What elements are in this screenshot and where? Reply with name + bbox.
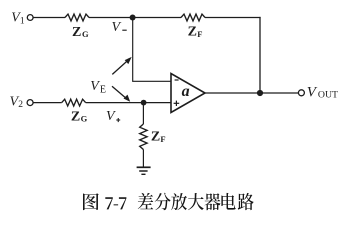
svg-text:V: V [112, 20, 122, 35]
wire feedback vertical [259, 17, 261, 93]
wire ZF2 to ground [142, 150, 144, 168]
node V- junction [112, 15, 136, 36]
svg-text:G: G [81, 114, 88, 124]
resistor ZF (bottom, to ground) [140, 124, 166, 150]
svg-text:1: 1 [20, 16, 25, 26]
wire ZF to feedback corner [205, 17, 261, 19]
svg-text:2: 2 [18, 100, 23, 110]
svg-text:F: F [160, 134, 165, 144]
label VE [90, 79, 106, 95]
node V1 input terminal [11, 10, 33, 27]
node output junction [257, 90, 263, 96]
svg-text:V: V [307, 84, 318, 100]
op-amp U1 [171, 74, 205, 113]
wire op-amp output to VOUT [205, 92, 299, 94]
svg-text:Z: Z [71, 109, 80, 124]
ground [137, 167, 151, 174]
node V+ junction [141, 100, 147, 106]
caption: figure 7-7 differential amplifier circuit [83, 193, 254, 210]
wire V2 terminal to ZG2 [33, 102, 61, 104]
wire ZG1 to node V- [89, 17, 181, 19]
wire V+ node down to ZF2 [142, 103, 144, 124]
svg-text:Z: Z [188, 25, 197, 40]
label V+ [106, 109, 120, 124]
svg-text:V: V [90, 79, 100, 94]
resistor ZF (top feedback) [181, 14, 205, 40]
node V2 input terminal [10, 94, 34, 110]
svg-text:OUT: OUT [318, 89, 338, 100]
svg-text:a: a [182, 83, 190, 100]
arrow VE to inverting wire [112, 57, 131, 75]
resistor ZG (bottom) [62, 99, 88, 124]
svg-text:G: G [82, 29, 89, 39]
svg-text:F: F [197, 29, 202, 39]
resistor ZG (top) [65, 14, 89, 40]
wire ZG2 to op-amp non-inverting input [86, 102, 171, 104]
svg-text:V: V [106, 109, 116, 124]
arrow VE to non-inverting wire [112, 86, 130, 102]
wire V- node down to op-amp inverting input [133, 18, 171, 82]
svg-text:E: E [100, 85, 106, 96]
svg-text:Z: Z [151, 130, 160, 145]
node VOUT output terminal [298, 84, 338, 100]
wire V1 terminal to ZG1 [33, 17, 65, 19]
svg-text:Z: Z [72, 25, 81, 40]
